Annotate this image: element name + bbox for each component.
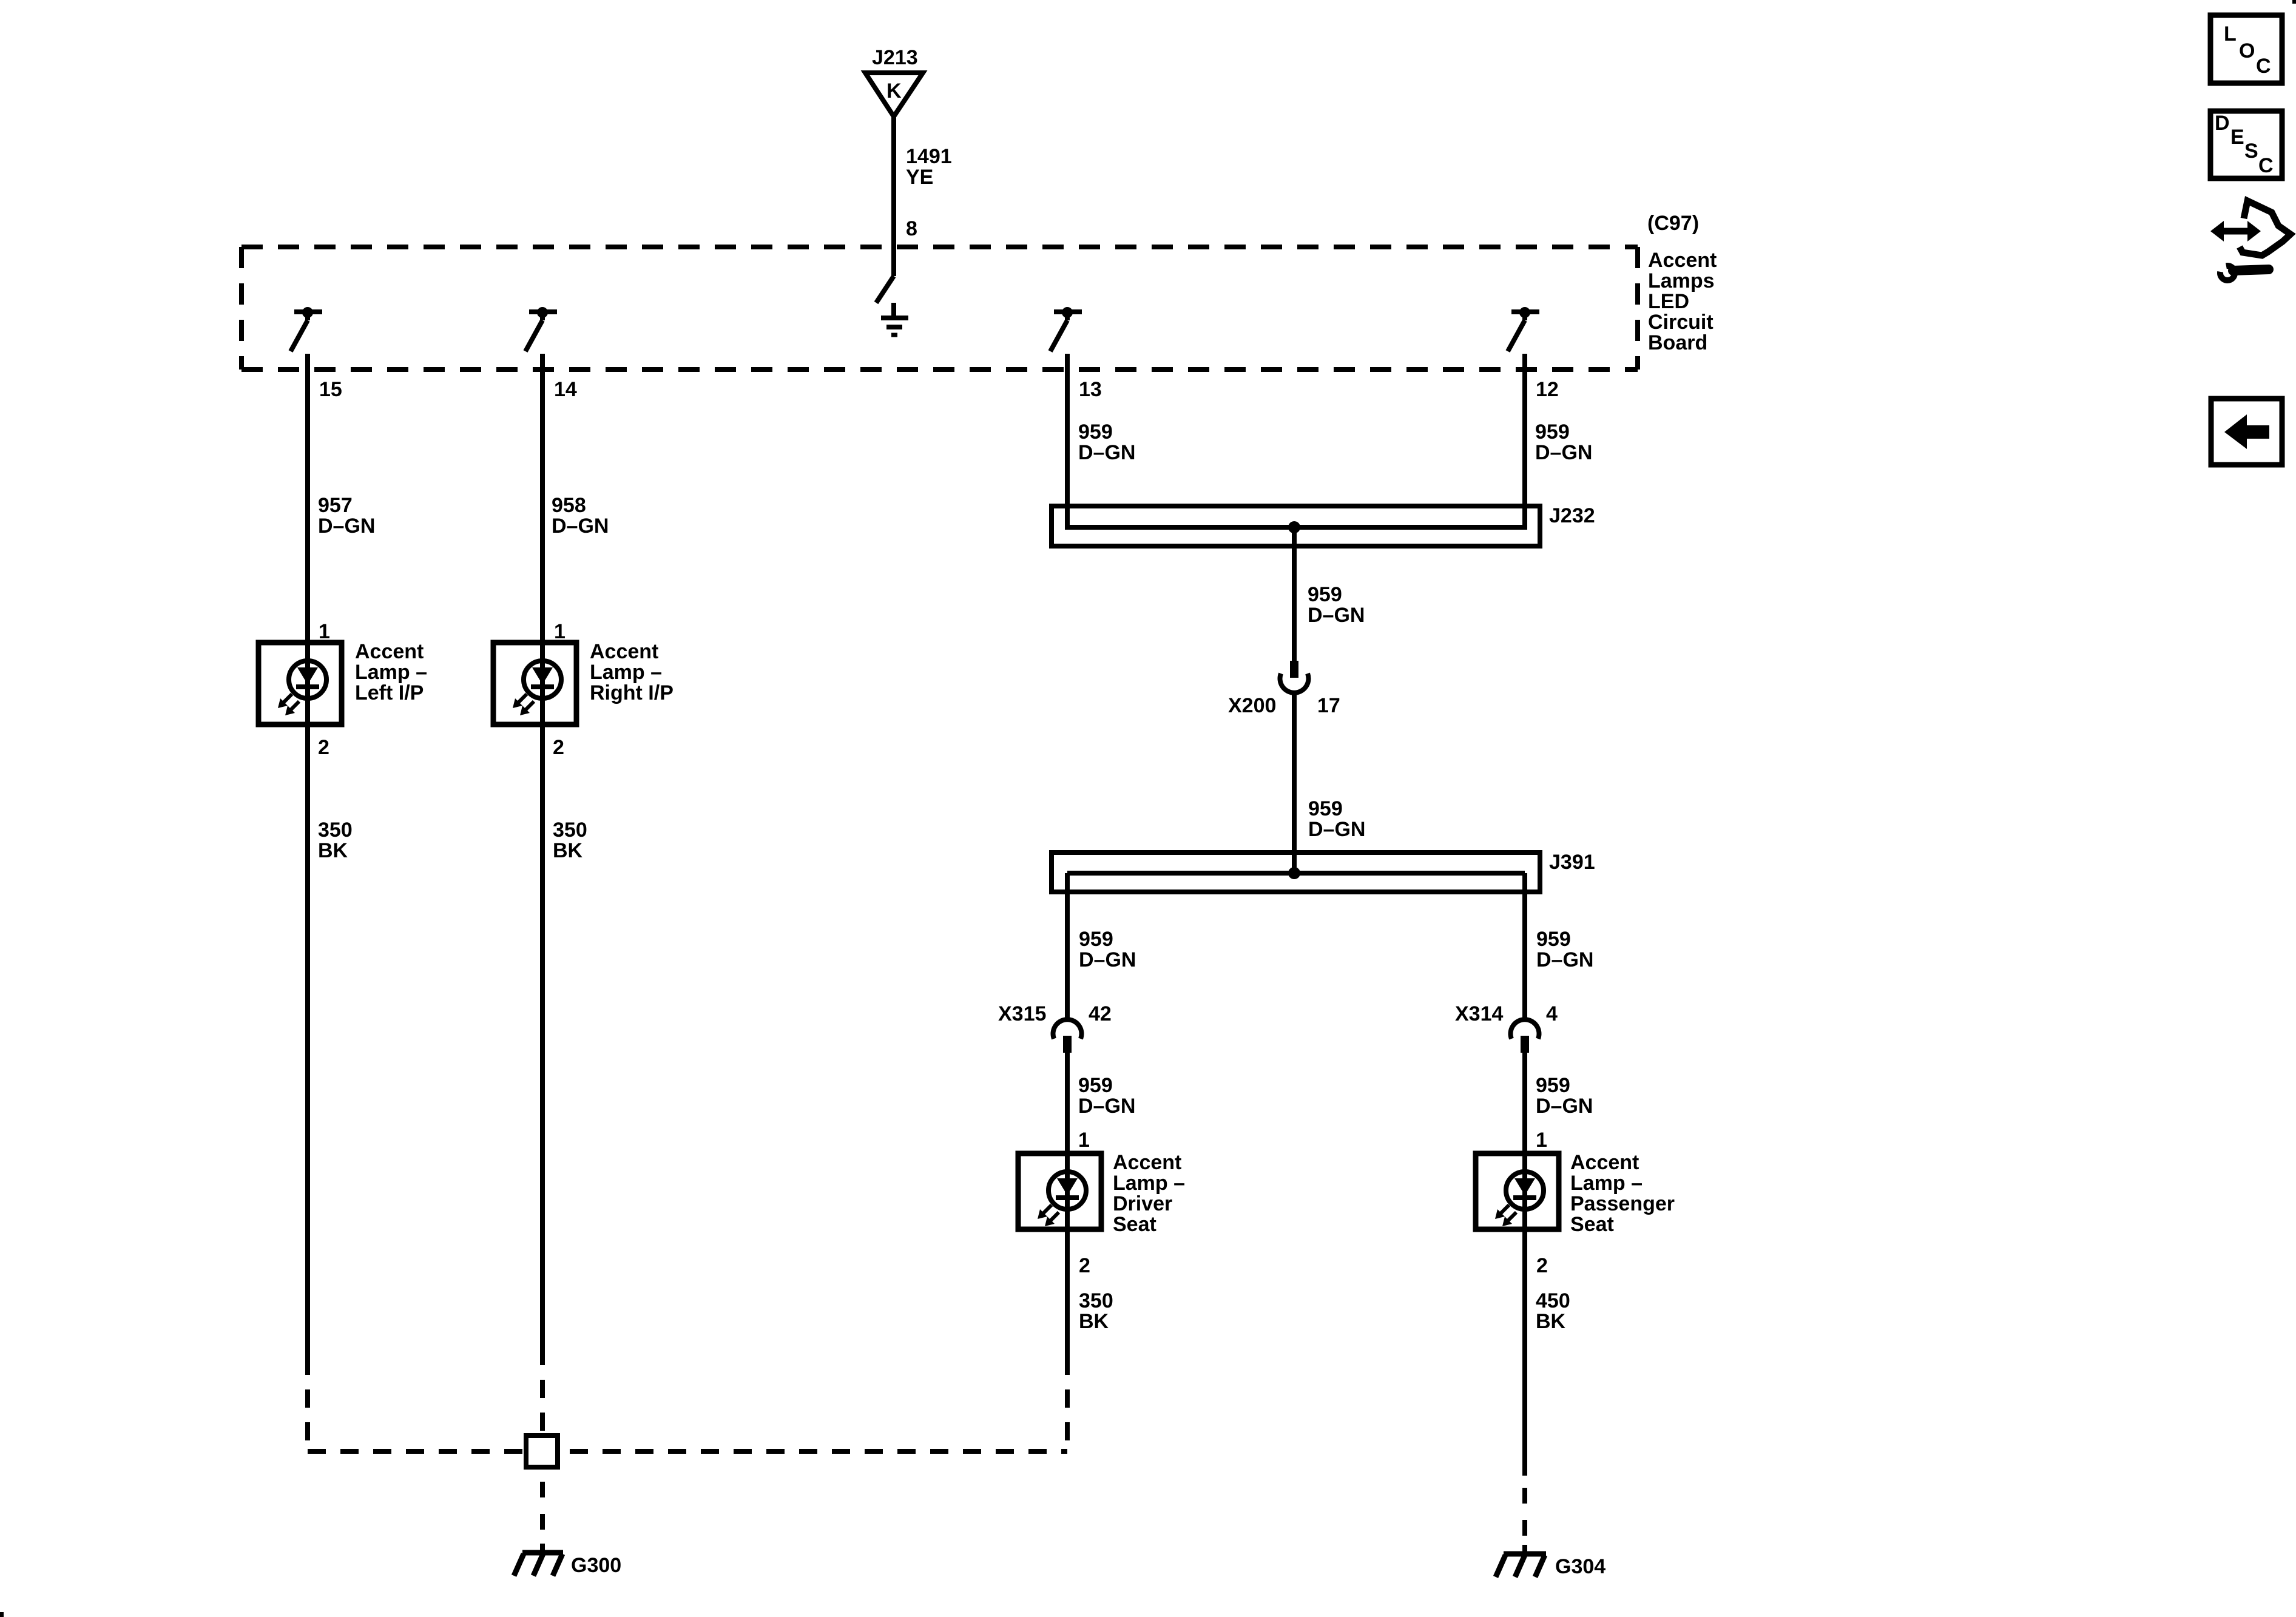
lamp Accent Lamp - Right I/P — [493, 643, 576, 724]
label X314 — [1455, 1002, 1503, 1025]
svg-text:K: K — [886, 79, 902, 103]
splice J213 label — [872, 46, 918, 69]
connector X315 pin 42 — [1053, 1019, 1081, 1053]
svg-text:1: 1 — [1078, 1129, 1090, 1152]
svg-text:J232: J232 — [1549, 504, 1595, 527]
svg-text:Board: Board — [1648, 331, 1707, 354]
svg-text:D–GN: D–GN — [1536, 1095, 1593, 1118]
wire 959 D-GN (X314 to passenger seat lamp) — [1522, 1053, 1527, 1156]
pin 13 label — [1079, 378, 1102, 401]
svg-text:Accent: Accent — [355, 640, 424, 663]
wire 959 D-GN (J232 to X200) — [1292, 527, 1297, 661]
pin 1 label (lamp left I/P) — [319, 620, 330, 643]
svg-text:X315: X315 — [998, 1002, 1046, 1025]
svg-text:D–GN: D–GN — [1535, 441, 1592, 464]
wire 1491 YE from J213 to C97 pin 8 — [891, 115, 896, 276]
label G300 — [571, 1554, 621, 1577]
svg-text:959: 959 — [1535, 420, 1570, 444]
svg-text:L: L — [2224, 22, 2237, 46]
svg-text:350: 350 — [1079, 1289, 1113, 1312]
svg-text:Lamps: Lamps — [1648, 269, 1715, 292]
svg-text:D–GN: D–GN — [1078, 441, 1135, 464]
svg-text:14: 14 — [554, 378, 577, 401]
pin 15 label — [319, 378, 342, 401]
pin 1 label (lamp right I/P) — [554, 620, 566, 643]
lamp Accent Lamp - Passenger Seat — [1476, 1153, 1559, 1229]
label 959 D-GN (below X314) — [1536, 1074, 1593, 1118]
icon LOC box — [2210, 15, 2282, 83]
svg-text:D–GN: D–GN — [1078, 1095, 1135, 1118]
pin 2 label (lamp right I/P) — [553, 736, 564, 759]
label 957 D-GN — [318, 494, 375, 538]
svg-text:C: C — [2258, 154, 2274, 177]
junction node (ground splice square) — [526, 1436, 558, 1467]
label G304 — [1555, 1555, 1606, 1578]
label 4 — [1546, 1002, 1558, 1025]
page corner speck top-right — [2292, 0, 2296, 4]
svg-text:959: 959 — [1308, 583, 1342, 606]
svg-text:958: 958 — [552, 494, 586, 517]
label 350 BK (driver seat) — [1079, 1289, 1113, 1333]
splice J213 triangle K — [865, 73, 923, 116]
svg-text:8: 8 — [906, 217, 917, 240]
label 959 D-GN (above X314) — [1536, 928, 1593, 971]
dashed wire segment (junction to G300) — [540, 1482, 545, 1530]
svg-text:1: 1 — [319, 620, 330, 643]
splice J391 — [1052, 852, 1540, 892]
svg-text:G304: G304 — [1555, 1555, 1606, 1578]
svg-text:E: E — [2230, 126, 2244, 149]
svg-text:X200: X200 — [1228, 694, 1276, 717]
svg-text:Accent: Accent — [1113, 1151, 1181, 1174]
svg-text:2: 2 — [1079, 1254, 1090, 1277]
wire 957 D-GN (pin 15 to lamp left I/P) — [305, 354, 310, 645]
svg-text:YE: YE — [906, 166, 933, 189]
wire 959 D-GN (X200 to J391) — [1292, 692, 1297, 876]
pin 2 label (driver seat lamp) — [1079, 1254, 1090, 1277]
svg-text:Lamp –: Lamp – — [1113, 1172, 1185, 1195]
switch pin 13 — [1050, 307, 1082, 351]
pin 1 label (passenger seat lamp) — [1536, 1129, 1547, 1152]
connector X200 pin 17 — [1280, 661, 1309, 693]
svg-text:959: 959 — [1536, 928, 1571, 951]
pin 12 label — [1536, 378, 1559, 401]
svg-text:4: 4 — [1546, 1002, 1558, 1025]
svg-text:BK: BK — [318, 839, 348, 862]
svg-text:15: 15 — [319, 378, 342, 401]
chassis ground inside C97 — [881, 303, 908, 335]
lamp Accent Lamp - Driver Seat — [1018, 1153, 1101, 1229]
svg-text:957: 957 — [318, 494, 353, 517]
svg-text:Right I/P: Right I/P — [590, 681, 674, 704]
label Accent Lamp - Driver Seat — [1113, 1151, 1185, 1236]
switch pin 14 — [525, 307, 557, 351]
label 959 D-GN (pin 13 side) — [1078, 420, 1135, 464]
svg-text:D–GN: D–GN — [1308, 604, 1365, 627]
wire 958 D-GN (pin 14 to lamp right I/P) — [540, 354, 545, 645]
splice J232 — [1052, 506, 1540, 546]
svg-text:17: 17 — [1317, 694, 1340, 717]
svg-text:Passenger: Passenger — [1570, 1192, 1675, 1215]
svg-text:S: S — [2244, 140, 2258, 163]
label X200 — [1228, 694, 1276, 717]
icon DESC box — [2210, 111, 2282, 178]
svg-text:BK: BK — [1536, 1310, 1566, 1333]
dashed wire segment (passenger leg to G304) — [1522, 1488, 1527, 1536]
dashed wire segment (left lamp leg) — [305, 1389, 310, 1451]
label 958 D-GN — [552, 494, 609, 538]
connector C97 dashed box (Accent Lamps LED Circuit Board) — [241, 247, 1638, 370]
wire 350 BK (lamp left I/P to ground bus) — [305, 724, 310, 1375]
svg-text:Circuit: Circuit — [1648, 311, 1714, 334]
label 959 D-GN (below X200) — [1308, 797, 1365, 841]
svg-text:Lamp –: Lamp – — [1570, 1172, 1643, 1195]
svg-text:959: 959 — [1078, 1074, 1113, 1097]
svg-text:X314: X314 — [1455, 1002, 1503, 1025]
label 42 — [1089, 1002, 1112, 1025]
label Accent Lamp - Left I/P — [355, 640, 427, 704]
svg-text:350: 350 — [318, 819, 353, 842]
dashed wire segment (right I/P lamp leg into junction) — [540, 1380, 545, 1436]
wire 350 BK (lamp right I/P to G300) — [540, 724, 545, 1365]
wire 350 BK (driver seat lamp down) — [1065, 1229, 1070, 1375]
svg-text:D–GN: D–GN — [552, 515, 609, 538]
svg-text:BK: BK — [1079, 1310, 1109, 1333]
connector X314 pin 4 — [1511, 1019, 1539, 1053]
svg-text:D–GN: D–GN — [1079, 948, 1136, 971]
pin 14 label — [554, 378, 577, 401]
svg-text:2: 2 — [1536, 1254, 1548, 1277]
svg-text:G300: G300 — [571, 1554, 621, 1577]
label Accent Lamp - Passenger Seat — [1570, 1151, 1675, 1236]
svg-text:Accent: Accent — [1648, 249, 1717, 272]
svg-text:Lamp –: Lamp – — [355, 661, 427, 684]
page corner speck bottom-left — [0, 1612, 4, 1617]
pin 2 label (passenger seat lamp) — [1536, 1254, 1548, 1277]
svg-text:959: 959 — [1079, 928, 1113, 951]
label 959 D-GN (pin 12 side) — [1535, 420, 1592, 464]
label 1491 YE — [906, 145, 952, 189]
wire 959 D-GN (J391 to X315) — [1065, 873, 1070, 1021]
label 17 — [1317, 694, 1340, 717]
svg-text:12: 12 — [1536, 378, 1559, 401]
wire 959 D-GN (X315 to driver seat lamp) — [1065, 1053, 1070, 1156]
dashed ground bus wire — [308, 1449, 1067, 1454]
pin 2 label (lamp left I/P) — [318, 736, 329, 759]
label 450 BK (passenger seat) — [1536, 1289, 1570, 1333]
svg-text:D–GN: D–GN — [1536, 948, 1593, 971]
svg-text:LED: LED — [1648, 290, 1689, 313]
svg-text:C: C — [2256, 55, 2271, 78]
svg-text:959: 959 — [1308, 797, 1343, 820]
label Accent Lamp - Right I/P — [590, 640, 674, 704]
wire 959 D-GN (pin 13 to J232) — [1065, 354, 1070, 530]
pin 8 — [906, 217, 917, 240]
svg-text:(C97): (C97) — [1647, 212, 1699, 235]
svg-text:J213: J213 — [872, 46, 918, 69]
pin 1 label (driver seat lamp) — [1078, 1129, 1090, 1152]
ground G304 — [1496, 1545, 1546, 1577]
lamp Accent Lamp - Left I/P — [258, 643, 342, 724]
wire 450 BK (passenger seat lamp to G304) — [1522, 1229, 1527, 1476]
svg-text:2: 2 — [553, 736, 564, 759]
svg-text:Accent: Accent — [1570, 1151, 1639, 1174]
svg-text:13: 13 — [1079, 378, 1102, 401]
svg-text:BK: BK — [553, 839, 583, 862]
icon back arrow box — [2211, 399, 2282, 465]
svg-text:Accent: Accent — [590, 640, 658, 663]
label Accent Lamps LED Circuit Board — [1648, 249, 1717, 354]
label (C97) — [1647, 212, 1699, 235]
svg-text:Seat: Seat — [1113, 1213, 1156, 1236]
svg-text:450: 450 — [1536, 1289, 1570, 1312]
svg-text:Lamp –: Lamp – — [590, 661, 662, 684]
wire 959 D-GN (pin 12 to J232) — [1522, 354, 1527, 530]
ground G300 — [514, 1544, 563, 1576]
label 350 BK (right I/P) — [553, 819, 587, 862]
dashed wire segment (driver seat leg) — [1065, 1389, 1070, 1451]
svg-text:959: 959 — [1078, 420, 1113, 444]
label 350 BK (left) — [318, 819, 353, 862]
svg-text:1491: 1491 — [906, 145, 952, 168]
svg-text:D–GN: D–GN — [1308, 818, 1365, 841]
wire 959 D-GN (J391 to X314) — [1522, 873, 1527, 1021]
svg-text:J391: J391 — [1549, 851, 1595, 874]
svg-text:42: 42 — [1089, 1002, 1112, 1025]
label X315 — [998, 1002, 1046, 1025]
svg-text:959: 959 — [1536, 1074, 1570, 1097]
label 959 D-GN (above X315) — [1079, 928, 1136, 971]
switch pin 15 — [291, 307, 322, 351]
svg-text:D–GN: D–GN — [318, 515, 375, 538]
svg-text:O: O — [2239, 39, 2255, 62]
svg-text:1: 1 — [1536, 1129, 1547, 1152]
label 959 D-GN (above X200) — [1308, 583, 1365, 627]
icon arrow-through-connector with wrench — [2210, 201, 2291, 280]
label J391 — [1549, 851, 1595, 874]
svg-text:Seat: Seat — [1570, 1213, 1614, 1236]
svg-text:Left I/P: Left I/P — [355, 681, 424, 704]
svg-text:1: 1 — [554, 620, 566, 643]
svg-text:2: 2 — [318, 736, 329, 759]
switch to ground inside C97 (J213 leg) — [876, 276, 894, 303]
switch pin 12 — [1508, 307, 1539, 351]
label 959 D-GN (below X315) — [1078, 1074, 1135, 1118]
svg-text:350: 350 — [553, 819, 587, 842]
label J232 — [1549, 504, 1595, 527]
svg-text:D: D — [2215, 112, 2230, 135]
svg-text:Driver: Driver — [1113, 1192, 1172, 1215]
